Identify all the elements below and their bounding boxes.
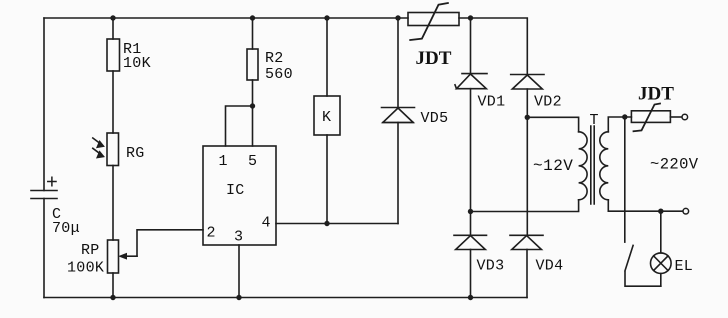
- svg-text:R2: R2: [265, 50, 284, 67]
- wire R1 top: [112, 18, 114, 39]
- node top rail / R1: [110, 15, 115, 20]
- wire junction to IC pin1: [226, 106, 253, 146]
- svg-text:100K: 100K: [67, 260, 104, 277]
- diode VD1: [455, 74, 487, 89]
- wire IC pin3 to bottom rail: [238, 245, 240, 298]
- wire left rail lower: [43, 199, 45, 298]
- svg-text:VD3: VD3: [477, 258, 505, 275]
- wire transformer secondary top: [608, 117, 631, 132]
- svg-text:T: T: [590, 112, 599, 129]
- node R2 / pins 1,5: [250, 103, 255, 108]
- svg-text:4: 4: [262, 215, 271, 232]
- svg-text:3: 3: [234, 229, 243, 246]
- wire VD5 top: [397, 18, 399, 108]
- svg-text:~220V: ~220V: [650, 156, 699, 174]
- svg-text:70μ: 70μ: [52, 220, 80, 237]
- wire bottom rail: [44, 297, 527, 299]
- wire IC pin4 output: [276, 223, 398, 225]
- photoresistor RG: [93, 133, 119, 166]
- node bottom rail / VD3: [468, 295, 473, 300]
- node K / pin4 wire: [324, 221, 329, 226]
- svg-text:10K: 10K: [123, 55, 151, 72]
- node VD2 / transformer: [525, 115, 530, 120]
- thermistor JDT1: [408, 3, 459, 40]
- svg-text:JDT: JDT: [416, 48, 452, 69]
- wire RG to RP: [112, 166, 114, 241]
- wire VD4 to bottom rail: [526, 250, 528, 298]
- op-amp IC U1 box: [203, 146, 276, 245]
- wire AC node VD1-VD3 to transformer primary bottom: [472, 200, 579, 212]
- svg-text:EL: EL: [675, 258, 694, 275]
- svg-text:JDT: JDT: [638, 84, 674, 105]
- wire VD2 to VD4: [526, 89, 528, 235]
- svg-text:RG: RG: [126, 145, 145, 162]
- wire left rail upper: [43, 18, 45, 191]
- wire relay K top: [326, 18, 328, 96]
- wire lamp bottom: [660, 274, 662, 287]
- diode VD5: [382, 108, 415, 123]
- potentiometer RP: [108, 240, 138, 273]
- wire VD1 to VD3: [470, 89, 472, 236]
- transformer T core: [591, 126, 594, 204]
- relay coil K: [314, 96, 340, 135]
- terminal bottom: [683, 208, 689, 214]
- svg-text:RP: RP: [81, 242, 100, 259]
- transformer T secondary winding: [600, 132, 609, 200]
- svg-text:VD2: VD2: [534, 94, 562, 111]
- node top rail / VD5: [395, 15, 400, 20]
- svg-text:IC: IC: [226, 182, 245, 199]
- node top rail / K: [324, 15, 329, 20]
- wire R2 top: [252, 18, 254, 49]
- svg-text:~12V: ~12V: [533, 157, 573, 175]
- capacitor C 70u: [31, 177, 57, 198]
- thermistor JDT2: [631, 104, 670, 132]
- diode VD3: [454, 235, 487, 249]
- lamp EL: [651, 253, 672, 274]
- wire RP bottom: [112, 273, 114, 298]
- diode VD4: [510, 235, 543, 249]
- svg-text:K: K: [322, 109, 331, 126]
- svg-text:2: 2: [207, 225, 216, 242]
- transformer T primary winding: [579, 132, 588, 200]
- svg-text:VD4: VD4: [536, 258, 564, 275]
- node secondary top / switch: [622, 114, 627, 119]
- svg-text:1: 1: [219, 153, 228, 170]
- terminal top: [682, 114, 688, 120]
- wire RP wiper to IC pin2: [137, 230, 203, 256]
- wire lamp top: [660, 211, 662, 253]
- resistor R2: [247, 49, 258, 80]
- resistor R1: [107, 39, 120, 71]
- wire bridge top to VD2: [471, 18, 528, 75]
- wire switch bottom: [625, 272, 661, 286]
- svg-text:VD5: VD5: [421, 110, 449, 127]
- wire bridge top to VD1: [470, 18, 472, 74]
- label RP 100K: [67, 242, 104, 277]
- svg-text:5: 5: [248, 153, 257, 170]
- wire R1 to RG: [112, 71, 114, 133]
- switch blade: [625, 245, 633, 270]
- node top rail / bridge: [468, 15, 473, 20]
- wire VD3 to bottom rail: [470, 250, 472, 298]
- node bottom rail / pin3: [236, 295, 241, 300]
- svg-text:560: 560: [265, 66, 293, 83]
- wire JDT2 to terminal: [670, 116, 681, 118]
- wire transformer secondary bottom: [608, 200, 682, 211]
- wire R2 to IC pin5: [252, 80, 254, 146]
- node secondary bottom / lamp: [658, 209, 663, 214]
- label R2 560: [265, 50, 293, 83]
- node top rail / R2: [250, 15, 255, 20]
- label R1 10K: [123, 41, 151, 72]
- diode VD2: [511, 75, 544, 90]
- wire VD5 bottom: [397, 123, 399, 224]
- svg-text:VD1: VD1: [478, 94, 506, 111]
- wire top rail: [44, 17, 471, 19]
- wire relay K bottom: [326, 135, 328, 224]
- node VD1 / transformer: [468, 209, 473, 214]
- wire AC node VD2-VD4 to transformer primary top: [527, 117, 578, 132]
- wire switch feed: [624, 117, 626, 242]
- node bottom rail / RP: [110, 295, 115, 300]
